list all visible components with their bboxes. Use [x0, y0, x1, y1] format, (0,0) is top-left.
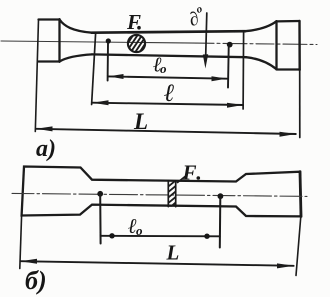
right fillet bottom (specimen a) — [246, 57, 277, 69]
l left arrow — [92, 100, 108, 105]
l0 dimension line — [108, 76, 227, 78]
right fillet top (specimen a) — [245, 21, 277, 31]
svg-text:F: F — [182, 161, 197, 185]
l0 right extension line (specimen b) — [219, 198, 222, 248]
svg-text:L: L — [166, 241, 180, 265]
svg-text:б): б) — [25, 266, 47, 295]
svg-text:F: F — [126, 10, 141, 34]
L right arrow (specimen b) — [277, 263, 294, 268]
right head right edge (thick) — [300, 172, 301, 217]
flat specimen outline — [22, 167, 301, 217]
left fillet top (specimen a) — [60, 20, 93, 33]
l left extension line — [92, 34, 96, 105]
svg-text:a): a) — [36, 136, 56, 162]
hatched band F0 (specimen b) — [167, 179, 179, 214]
F0 leader line (specimen b) — [178, 177, 186, 183]
l0 right extension line — [227, 47, 230, 88]
gauge mark dot right (specimen b) — [218, 193, 224, 199]
left head edge / L left extension line — [35, 20, 38, 132]
l right arrow — [227, 103, 243, 108]
l0 left extension line — [107, 43, 109, 81]
label d0 (cursive, rotated) — [185, 3, 208, 31]
L right extension line (specimen b) — [296, 216, 301, 275]
l dimension line — [92, 103, 243, 105]
l0 dimension line (specimen b) — [101, 235, 220, 238]
svg-text:o: o — [136, 223, 143, 238]
centerline (specimen a) — [1, 41, 196, 43]
left grip head (specimen a) — [39, 19, 60, 62]
left fillet bottom (specimen a) — [60, 54, 93, 61]
l0 dimension end dot right (specimen b) — [204, 234, 209, 239]
L left arrow — [36, 126, 53, 131]
gauge mark dot left (specimen b) — [97, 191, 103, 197]
L left extension line (specimen b) — [20, 216, 22, 269]
L dimension line (specimen b) — [21, 261, 294, 266]
l0 dimension end dot left (specimen b) — [109, 233, 114, 238]
svg-text:o: o — [160, 61, 167, 76]
l right extension line — [242, 33, 245, 110]
gauge bottom edge (specimen a) — [92, 54, 246, 57]
centerline (specimen b) dash-dot — [12, 193, 307, 196]
svg-text:L: L — [133, 109, 148, 134]
L left arrow (specimen b) — [20, 259, 37, 264]
gauge top edge (specimen a) — [92, 31, 245, 33]
gauge mark dot left (specimen a) — [106, 38, 111, 43]
gauge mark dot right (specimen a) — [227, 42, 233, 48]
L right arrow — [280, 132, 296, 137]
l0 left arrow — [108, 74, 123, 79]
svg-text:ℓ: ℓ — [164, 80, 175, 107]
right grip head (specimen a) — [277, 21, 300, 70]
right head edge / L right extension line — [298, 21, 301, 70]
l0 left extension line (specimen b) — [99, 195, 101, 244]
d0 indicator line with down arrow — [206, 13, 207, 60]
hatched cross-section circle F0 (specimen a) — [125, 31, 148, 56]
L dimension line (specimen a) — [36, 129, 296, 134]
l0 right arrow — [212, 76, 227, 81]
